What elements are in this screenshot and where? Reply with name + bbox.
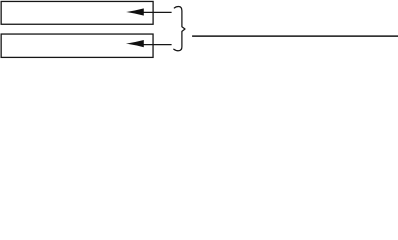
arrowhead A2 (bottom, pointing left)	[126, 40, 144, 47]
long line (right)	[192, 35, 398, 37]
wire: bottom arrow tail	[143, 44, 172, 46]
wire: top arrow tail	[143, 11, 172, 13]
arrowhead A1 (top, pointing left)	[126, 8, 144, 15]
figure: two boxes with left-pointing arrows, right brace, long line	[0, 0, 398, 59]
box 1 (top rectangle)	[1, 1, 153, 24]
box 2 (bottom rectangle)	[1, 34, 153, 57]
right brace	[174, 7, 185, 51]
